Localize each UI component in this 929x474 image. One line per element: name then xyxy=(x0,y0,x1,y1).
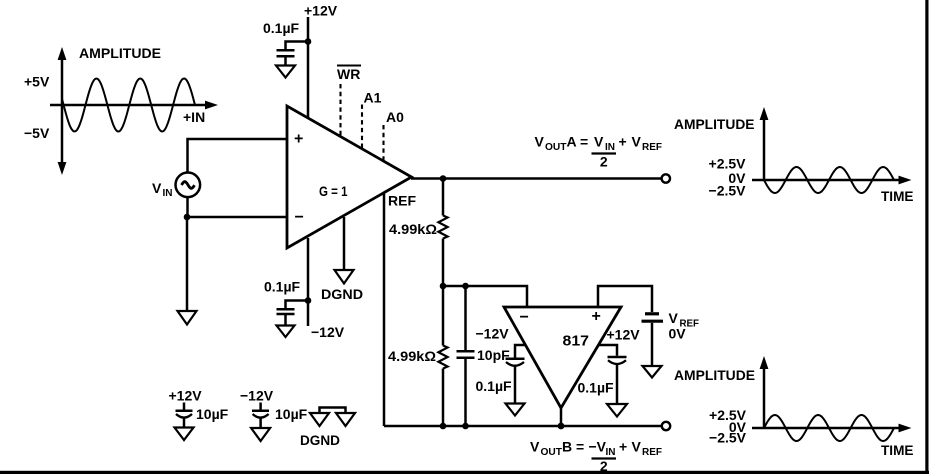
svg-text:TIME: TIME xyxy=(881,188,914,204)
svg-text:−12V: −12V xyxy=(476,326,510,342)
wire output B bus xyxy=(384,425,662,428)
svg-text:V: V xyxy=(535,134,545,150)
svg-text:REF: REF xyxy=(642,142,662,153)
svg-text:0.1µF: 0.1µF xyxy=(578,380,615,396)
ground (C4) xyxy=(506,404,525,416)
svg-text:+: + xyxy=(619,134,627,150)
svg-text:DGND: DGND xyxy=(321,286,363,302)
capacitor C2 0.1uF (U1 -12V) xyxy=(264,279,308,326)
junction output A / R1 xyxy=(440,175,447,182)
svg-text:V: V xyxy=(152,180,162,196)
svg-text:V: V xyxy=(669,310,679,326)
svg-text:0V: 0V xyxy=(669,326,687,342)
svg-text:+IN: +IN xyxy=(183,109,205,125)
capacitor C5 0.1uF (U2 +12V) xyxy=(578,345,627,404)
svg-text:OUT: OUT xyxy=(541,447,563,458)
ground (VIN) xyxy=(178,311,197,325)
ground (C5) xyxy=(607,404,627,417)
ground (VREF) xyxy=(643,366,662,378)
junction bus/U2 output xyxy=(558,423,565,430)
wire U2 output to bus xyxy=(560,408,563,426)
svg-text:−12V: −12V xyxy=(240,388,274,404)
svg-text:REF: REF xyxy=(642,447,662,458)
svg-text:−V: −V xyxy=(589,439,607,455)
junction mid node / 10pF xyxy=(462,283,469,290)
wire VIN to inverting input xyxy=(188,198,288,218)
svg-text:+: + xyxy=(619,439,627,455)
battery VREF xyxy=(642,314,664,366)
wire VIN node to ground xyxy=(186,217,189,311)
resistor R2 4.99k xyxy=(388,286,448,426)
ground DGND (U1) xyxy=(335,270,354,284)
svg-text:+12V: +12V xyxy=(169,388,203,404)
svg-text:0.1µF: 0.1µF xyxy=(476,378,513,394)
control line A1 xyxy=(362,90,382,150)
svg-text:+5V: +5V xyxy=(24,74,50,90)
wire output A xyxy=(411,177,661,180)
ground (top 0.1uF) xyxy=(276,66,295,78)
svg-text:10µF: 10µF xyxy=(275,406,308,422)
input amplitude graph axes xyxy=(50,47,218,175)
label VOUT A formula xyxy=(535,134,663,170)
wire +12V to op-amp U1 top xyxy=(307,17,310,118)
svg-text:−2.5V: −2.5V xyxy=(709,430,747,446)
ground (C7) xyxy=(251,428,270,441)
svg-text:+12V: +12V xyxy=(607,327,641,343)
svg-text:IN: IN xyxy=(605,142,615,153)
svg-text:A1: A1 xyxy=(364,90,382,106)
svg-text:A =: A = xyxy=(567,134,589,150)
resistor R1 4.99k xyxy=(389,179,448,287)
svg-text:DGND: DGND xyxy=(300,432,340,448)
wire mid node to U2 inverting input xyxy=(443,286,527,307)
svg-text:AMPLITUDE: AMPLITUDE xyxy=(79,45,161,61)
svg-text:−: − xyxy=(520,309,529,326)
svg-text:V: V xyxy=(594,134,604,150)
output B amplitude graph xyxy=(674,356,914,458)
svg-text:IN: IN xyxy=(163,188,173,199)
source VIN xyxy=(176,173,201,198)
svg-text:−5V: −5V xyxy=(24,125,50,141)
svg-text:AMPLITUDE: AMPLITUDE xyxy=(674,116,755,132)
svg-text:10pF: 10pF xyxy=(477,347,510,363)
junction mid node / R1 bottom xyxy=(440,283,447,290)
svg-text:+: + xyxy=(592,308,601,325)
svg-text:4.99kΩ: 4.99kΩ xyxy=(388,348,436,364)
junction bus/10pF xyxy=(462,423,469,430)
op-amp U1 (G = 1 buffer) xyxy=(287,106,412,248)
input sine waveform xyxy=(62,79,195,132)
junction bus/R2 xyxy=(440,423,447,430)
capacitor C4 0.1uF (U2 -12V) xyxy=(476,345,526,404)
ground (C2) xyxy=(277,326,295,338)
svg-text:10µF: 10µF xyxy=(196,406,229,422)
capacitor C7 10uF (-12V) xyxy=(252,403,308,429)
svg-text:OUT: OUT xyxy=(545,142,567,153)
svg-text:4.99kΩ: 4.99kΩ xyxy=(389,221,437,237)
output A amplitude graph xyxy=(674,107,914,204)
svg-text:REF: REF xyxy=(388,193,416,209)
svg-text:817: 817 xyxy=(563,333,590,350)
svg-text:V: V xyxy=(530,439,540,455)
label VOUT B formula xyxy=(530,439,662,474)
svg-text:V: V xyxy=(632,439,642,455)
terminal VOUT A xyxy=(662,174,670,182)
input amplitude graph labels xyxy=(24,45,205,141)
control line WR xyxy=(337,66,361,137)
capacitor C6 10uF (+12V) xyxy=(176,403,229,428)
svg-text:+: + xyxy=(294,131,303,148)
svg-text:2: 2 xyxy=(600,154,608,170)
svg-text:TIME: TIME xyxy=(881,442,914,458)
svg-text:AMPLITUDE: AMPLITUDE xyxy=(674,367,755,383)
svg-text:WR: WR xyxy=(337,66,360,82)
svg-text:−12V: −12V xyxy=(311,324,345,340)
svg-text:B =: B = xyxy=(562,439,584,455)
ground DGND (supply pair) xyxy=(300,408,355,449)
svg-text:A0: A0 xyxy=(386,109,404,125)
svg-text:+12V: +12V xyxy=(304,3,338,19)
svg-text:IN: IN xyxy=(606,447,616,458)
junction -12V decoupling node xyxy=(305,297,312,304)
wire REF pin to output B bus xyxy=(383,193,386,426)
ground (C6) xyxy=(175,428,194,441)
svg-text:G = 1: G = 1 xyxy=(319,183,348,199)
svg-text:−2.5V: −2.5V xyxy=(709,183,747,199)
capacitor C3 10pF xyxy=(457,286,511,426)
control line A0 xyxy=(384,109,405,162)
svg-text:−: − xyxy=(295,209,304,226)
svg-text:0.1µF: 0.1µF xyxy=(263,20,300,36)
wire U1 DGND pin xyxy=(343,217,346,270)
capacitor C1 0.1uF (top) xyxy=(263,20,308,66)
label VIN xyxy=(152,180,173,199)
junction VIN node xyxy=(184,214,191,221)
svg-text:0.1µF: 0.1µF xyxy=(264,279,301,295)
op-amp U2 817 xyxy=(504,307,621,408)
label VREF 0V xyxy=(669,310,700,342)
wire U2 noninverting input to VREF xyxy=(598,286,652,312)
junction +12V decoupling node xyxy=(305,38,312,45)
wire U1 negative supply (-12V) xyxy=(307,238,310,326)
wire VIN to noninverting input xyxy=(188,139,288,172)
terminal VOUT B xyxy=(662,422,670,430)
svg-text:V: V xyxy=(632,134,642,150)
